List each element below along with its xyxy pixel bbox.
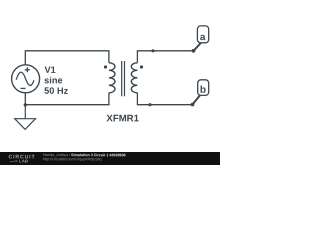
secondary winding [131,63,137,93]
node anchor a [192,49,196,53]
flag a [194,26,209,51]
flag b [193,80,209,105]
svg-text:V1: V1 [44,65,55,75]
footer bar [0,152,220,165]
junction node bottom [148,103,151,106]
wire XFMR1 secondary bottom to flag b [137,93,192,105]
label V1 value [44,65,68,96]
wire V1 top to XFMR1 primary top [25,51,109,65]
ground [15,105,36,129]
svg-text:sine: sine [44,75,62,85]
junction node top [151,49,154,52]
wire bottom rail to XFMR1 primary bottom [25,93,109,105]
core [122,61,125,96]
CircuitLab logo [8,154,35,163]
voltage source V1 [12,65,40,93]
svg-text:a: a [200,32,206,43]
svg-text:XFMR1: XFMR1 [106,113,139,124]
node anchor b [191,103,195,107]
svg-text:50 Hz: 50 Hz [44,86,68,96]
svg-text:http://circuitlab.com/c/IqueRP: http://circuitlab.com/c/IqueRPdluSNz [43,157,102,161]
svg-text:—▪• LAB: —▪• LAB [10,158,28,163]
secondary phase dot [140,65,143,68]
wire V1 bottom [24,93,26,106]
transformer XFMR1 [104,61,143,96]
primary winding [109,63,115,93]
junction ground node [24,103,27,106]
wire XFMR1 secondary top to flag a [137,51,193,63]
primary phase dot [104,65,107,68]
svg-text:b: b [200,85,206,96]
